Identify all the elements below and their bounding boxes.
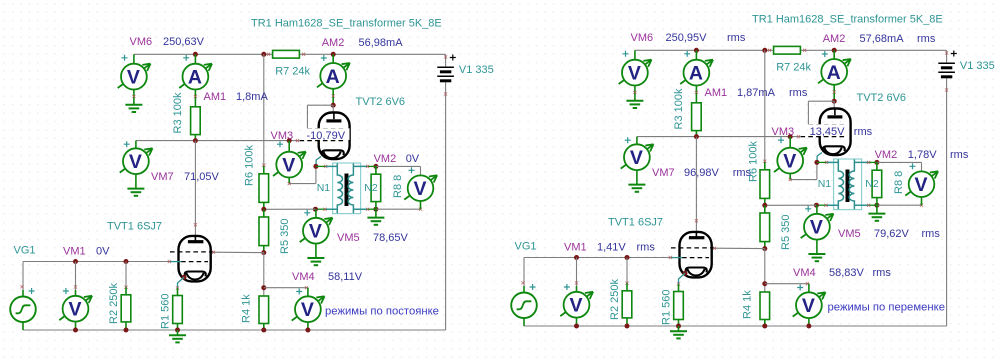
svg-text:rms: rms [789,87,808,99]
svg-text:VM1: VM1 [564,242,587,254]
svg-text:N2: N2 [865,178,879,190]
svg-text:VG1: VG1 [14,245,36,257]
svg-text:AM2: AM2 [823,33,846,45]
svg-text:VM5: VM5 [337,232,360,244]
svg-text:R4 1k: R4 1k [241,294,253,323]
svg-text:56,98mA: 56,98mA [359,37,404,49]
svg-text:1,78V: 1,78V [908,149,937,161]
svg-text:79,62V: 79,62V [874,228,910,240]
svg-text:R5 350: R5 350 [780,215,792,250]
svg-text:rms: rms [854,126,873,138]
svg-text:R7 24k: R7 24k [275,66,310,78]
svg-text:57,68mA: 57,68mA [860,33,905,45]
svg-text:0V: 0V [96,246,110,258]
svg-text:78,65V: 78,65V [373,232,409,244]
svg-text:250,63V: 250,63V [163,36,205,48]
svg-text:58,11V: 58,11V [328,271,363,283]
svg-text:R8 8: R8 8 [392,175,404,198]
svg-text:250,95V: 250,95V [666,32,708,44]
left circuit (DC) [10,50,456,342]
svg-text:N1: N1 [317,182,331,194]
svg-text:N1: N1 [818,178,832,190]
svg-text:R1 560: R1 560 [160,294,172,329]
svg-text:VM3: VM3 [772,126,795,138]
svg-text:71,05V: 71,05V [184,171,220,183]
svg-text:R7 24k: R7 24k [776,62,811,74]
svg-text:VM2: VM2 [875,149,898,161]
svg-text:режимы по постоянке: режимы по постоянке [325,305,439,317]
svg-text:rms: rms [873,267,892,279]
svg-text:R4 1k: R4 1k [742,290,754,319]
svg-text:V1 335: V1 335 [960,60,995,72]
svg-text:TR1 Ham1628_SE_transformer 5K_: TR1 Ham1628_SE_transformer 5K_8E [251,18,442,30]
svg-text:N2: N2 [364,182,378,194]
svg-text:AM2: AM2 [322,37,345,49]
svg-text:VM6: VM6 [631,32,654,44]
svg-text:R3 100k: R3 100k [172,92,184,133]
svg-text:0V: 0V [406,153,420,165]
svg-text:VM7: VM7 [151,171,174,183]
svg-text:VM5: VM5 [838,228,861,240]
svg-text:TVT1 6SJ7: TVT1 6SJ7 [608,217,663,229]
svg-text:R2 250k: R2 250k [108,283,120,324]
svg-text:R6 100k: R6 100k [244,145,256,186]
svg-text:TVT2 6V6: TVT2 6V6 [857,92,907,104]
svg-text:rms: rms [727,32,746,44]
svg-text:V1 335: V1 335 [459,64,494,76]
svg-text:TVT1 6SJ7: TVT1 6SJ7 [107,221,162,233]
svg-text:rms: rms [637,242,656,254]
svg-text:TR1 Ham1628_SE_transformer 5K_: TR1 Ham1628_SE_transformer 5K_8E [752,14,943,26]
right circuit (AC) [511,46,957,338]
svg-text:VM7: VM7 [652,167,675,179]
svg-text:1,87mA: 1,87mA [737,87,776,99]
svg-text:R5 350: R5 350 [279,219,291,254]
svg-text:1,8mA: 1,8mA [236,91,268,103]
svg-text:режимы по переменке: режимы по переменке [828,301,945,313]
svg-text:VM2: VM2 [374,153,397,165]
svg-text:VM4: VM4 [793,267,816,279]
svg-text:1,41V: 1,41V [597,242,626,254]
svg-text:R6 100k: R6 100k [748,141,760,182]
svg-text:R1 560: R1 560 [661,290,673,325]
svg-text:-10,79V: -10,79V [307,130,346,142]
svg-text:13,45V: 13,45V [810,126,846,138]
svg-text:58,83V: 58,83V [829,267,865,279]
svg-text:rms: rms [950,149,969,161]
svg-text:R3 100k: R3 100k [673,88,685,129]
svg-text:VM1: VM1 [63,246,86,258]
svg-text:R2 250k: R2 250k [609,279,621,320]
svg-text:96,98V: 96,98V [684,167,720,179]
svg-text:rms: rms [922,228,941,240]
svg-text:VM6: VM6 [130,36,153,48]
svg-text:AM1: AM1 [705,87,728,99]
svg-text:VM4: VM4 [292,271,315,283]
svg-text:VM3: VM3 [271,130,294,142]
svg-text:VG1: VG1 [515,241,537,253]
svg-text:rms: rms [917,33,936,45]
svg-text:R8 8: R8 8 [893,171,905,194]
svg-text:AM1: AM1 [204,91,227,103]
svg-text:TVT2 6V6: TVT2 6V6 [356,96,406,108]
